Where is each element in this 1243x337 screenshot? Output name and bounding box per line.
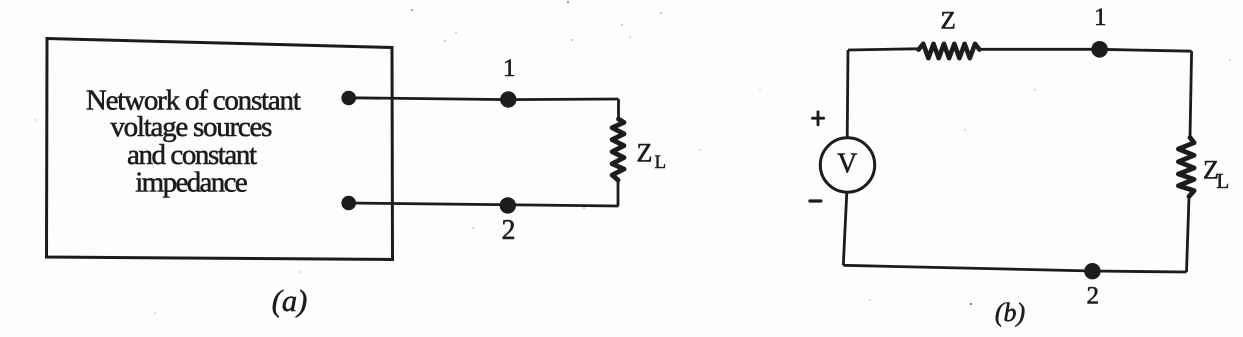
top wire left segment (b) bbox=[848, 49, 917, 50]
svg-text:2: 2 bbox=[1087, 283, 1100, 310]
svg-text:(b): (b) bbox=[995, 298, 1025, 327]
svg-text:2: 2 bbox=[502, 215, 516, 246]
svg-text:1: 1 bbox=[503, 55, 516, 82]
top wire right segment (b) bbox=[980, 49, 1192, 51]
left wire top (b) bbox=[846, 50, 850, 138]
svg-text:L: L bbox=[655, 152, 667, 173]
terminal dot top (a) bbox=[341, 91, 356, 106]
bottom wire (b) bbox=[843, 265, 1186, 272]
right wire bottom (b) bbox=[1187, 197, 1190, 272]
resistor ZL (b) bbox=[1178, 138, 1194, 197]
box label text bbox=[86, 85, 301, 199]
wire bottom (a) bbox=[348, 203, 619, 206]
wire top (a) bbox=[349, 98, 619, 100]
voltage source circle V (b) bbox=[820, 138, 874, 192]
left wire bottom (b) bbox=[843, 192, 847, 265]
svg-text:1: 1 bbox=[1094, 4, 1107, 31]
plus sign bbox=[813, 112, 824, 125]
minus sign bbox=[810, 199, 821, 202]
resistor Z (b) bbox=[919, 44, 980, 58]
svg-text:(a): (a) bbox=[272, 284, 308, 318]
resistor ZL (a) bbox=[612, 119, 624, 180]
svg-text:V: V bbox=[837, 149, 857, 180]
node 1 dot (a) bbox=[500, 91, 516, 107]
svg-text:Z: Z bbox=[941, 8, 956, 35]
right wire top (b) bbox=[1190, 51, 1192, 138]
svg-text:impedance: impedance bbox=[135, 167, 248, 199]
svg-text:Z: Z bbox=[637, 138, 653, 167]
node 1 dot (b) bbox=[1091, 41, 1108, 58]
svg-text:L: L bbox=[1216, 169, 1229, 193]
node 2 dot (b) bbox=[1084, 263, 1100, 279]
terminal dot bottom (a) bbox=[341, 196, 356, 211]
wire right vertical (a) bbox=[617, 99, 620, 121]
node 2 dot (a) bbox=[500, 197, 516, 213]
network box (a) bbox=[47, 39, 393, 260]
